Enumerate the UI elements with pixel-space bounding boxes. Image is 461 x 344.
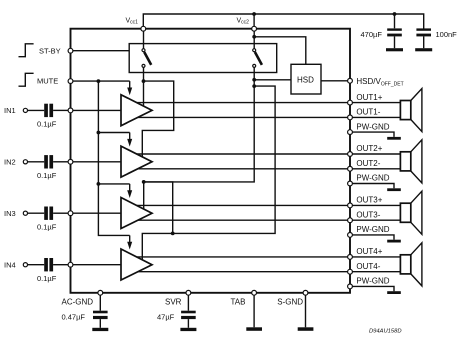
wire OUT4- from amplifier to pin and speaker bbox=[138, 271, 401, 273]
svg-text:PW-GND: PW-GND bbox=[356, 122, 389, 131]
MUTE input step waveform symbol bbox=[19, 73, 34, 86]
junction SW2 rail branch bbox=[252, 84, 256, 88]
svg-text:OUT1+: OUT1+ bbox=[356, 93, 382, 102]
svg-text:PW-GND: PW-GND bbox=[356, 277, 389, 286]
speaker load channel 1 bbox=[400, 89, 422, 132]
wire switch SW1 rail junction bbox=[142, 79, 146, 83]
svg-text:IN2: IN2 bbox=[4, 158, 16, 167]
svg-text:OUT3+: OUT3+ bbox=[356, 196, 382, 205]
wire OUT4+ from amplifier to pin and speaker bbox=[137, 256, 401, 258]
svg-text:OUT3-: OUT3- bbox=[356, 210, 380, 219]
node OUT1- pin bbox=[348, 108, 381, 120]
ground symbol PW-GND channel 4 bbox=[387, 291, 401, 294]
node IN3 input terminal bbox=[4, 209, 28, 218]
wire IN4 to coupling capacitor bbox=[28, 264, 45, 266]
mute control arrow into amp A2 bbox=[127, 133, 132, 147]
wire PW-GND to ground bbox=[352, 286, 394, 291]
wire IN1 to coupling capacitor bbox=[28, 109, 45, 111]
svg-text:MUTE: MUTE bbox=[37, 77, 58, 86]
capacitor 47uF SVR bbox=[157, 295, 196, 328]
ground symbol PW-GND channel 1 bbox=[387, 137, 401, 140]
node Vcc1 bbox=[126, 18, 146, 32]
wire OUT2+ from amplifier to pin and speaker bbox=[137, 153, 401, 155]
wire junction at Vcc2 stub bbox=[252, 12, 256, 16]
IC package boundary bbox=[71, 29, 351, 293]
wire mute distribution rail bbox=[98, 81, 129, 235]
svg-text:ST-BY: ST-BY bbox=[39, 47, 61, 56]
node IN4 pin on package bbox=[68, 262, 73, 267]
svg-text:0.1µF: 0.1µF bbox=[37, 222, 57, 231]
ground for 47uF bbox=[180, 328, 196, 331]
node PW-GND pin channel 2 bbox=[348, 174, 390, 186]
node AC-GND pin bbox=[62, 290, 103, 306]
wire supply into amp1 bbox=[143, 81, 145, 106]
wire IN2 pin to amplifier input bbox=[73, 161, 121, 163]
wire IN3 to coupling capacitor bbox=[28, 212, 45, 214]
junction amp4 supply line bbox=[171, 232, 175, 236]
node OUT3+ pin bbox=[348, 196, 383, 208]
junction amp3 supply bbox=[142, 180, 146, 184]
ST-BY input step waveform symbol bbox=[19, 44, 34, 57]
node PW-GND pin channel 3 bbox=[348, 225, 390, 237]
svg-text:D94AU158D: D94AU158D bbox=[369, 329, 402, 335]
wire switch SW2 rail down to amp3 bbox=[144, 86, 255, 209]
wire SW2 branch bypass down right side bbox=[142, 86, 275, 260]
wire OUT2- from amplifier to pin and speaker bbox=[138, 168, 401, 170]
svg-text:PW-GND: PW-GND bbox=[356, 225, 389, 234]
node OUT4- pin bbox=[348, 262, 381, 274]
svg-text:0.1µF: 0.1µF bbox=[37, 274, 57, 283]
svg-text:OUT2-: OUT2- bbox=[356, 159, 380, 168]
svg-text:0.1µF: 0.1µF bbox=[37, 171, 57, 180]
speaker load channel 4 bbox=[400, 243, 422, 286]
capacitor 0.47uF AC-GND bbox=[62, 295, 108, 328]
node SVR pin bbox=[165, 290, 191, 306]
wire PW-GND to ground bbox=[352, 184, 394, 189]
node PW-GND pin channel 4 bbox=[348, 277, 390, 289]
node PW-GND pin channel 1 bbox=[348, 122, 390, 134]
svg-text:OUT4-: OUT4- bbox=[356, 262, 380, 271]
wire OUT1- from amplifier to pin and speaker bbox=[138, 116, 401, 118]
figure reference code D94AU158D bbox=[369, 329, 402, 335]
svg-text:OUT2+: OUT2+ bbox=[356, 144, 382, 153]
node OUT2- pin bbox=[348, 159, 381, 171]
HSD block U2 bbox=[291, 64, 321, 94]
svg-text:PW-GND: PW-GND bbox=[356, 174, 389, 183]
capacitor 0.1uF input coupling C3 bbox=[37, 207, 57, 232]
wire coupling cap to IN1 pin bbox=[53, 109, 68, 111]
switch SW1 (Vcc1) bbox=[142, 31, 151, 81]
speaker load channel 3 bbox=[400, 191, 422, 234]
node OUT3- pin bbox=[348, 210, 381, 222]
mute control arrow into amp A4 bbox=[127, 235, 132, 249]
wire supply loop around amp3 feeding amp4 bbox=[144, 182, 173, 234]
ground for TAB bbox=[246, 295, 262, 331]
svg-text:S-GND: S-GND bbox=[277, 298, 303, 307]
wire OUT1+ from amplifier to pin and speaker bbox=[137, 102, 401, 104]
wire IN3 pin to amplifier input bbox=[73, 212, 121, 214]
svg-text:IN3: IN3 bbox=[4, 209, 16, 218]
svg-text:470µF: 470µF bbox=[361, 30, 383, 39]
ground symbol PW-GND channel 2 bbox=[387, 188, 401, 191]
svg-text:HSD: HSD bbox=[297, 76, 314, 85]
node IN1 pin on package bbox=[68, 108, 73, 113]
svg-text:OUT1-: OUT1- bbox=[356, 108, 380, 117]
junction mute rail to amp2 feed bbox=[97, 131, 130, 135]
wire junction at 470uF capacitor bbox=[393, 12, 397, 16]
op-amp power amplifier A1 bbox=[121, 95, 152, 126]
wire HSD output bbox=[321, 80, 348, 82]
svg-text:AC-GND: AC-GND bbox=[62, 298, 94, 307]
ground for S-GND bbox=[298, 295, 314, 331]
svg-text:0.1µF: 0.1µF bbox=[37, 120, 57, 129]
capacitor C5 470uF supply electrolytic bbox=[361, 14, 402, 48]
op-amp power amplifier A2 bbox=[121, 146, 152, 177]
svg-text:0.47µF: 0.47µF bbox=[62, 313, 86, 322]
svg-text:100nF: 100nF bbox=[436, 30, 458, 39]
ground symbol PW-GND channel 3 bbox=[387, 240, 401, 243]
svg-text:TAB: TAB bbox=[231, 298, 246, 307]
node MUTE pin bbox=[37, 77, 73, 86]
wire OUT3+ from amplifier to pin and speaker bbox=[137, 204, 401, 206]
svg-text:OUT4+: OUT4+ bbox=[356, 247, 382, 256]
stand-by/mute switch block bbox=[129, 44, 277, 73]
wire IN2 to coupling capacitor bbox=[28, 161, 45, 163]
node HSD/V_OFF_DET pin bbox=[348, 77, 404, 88]
ground for 470uF bbox=[386, 48, 403, 51]
junction mute rail to amp3 feed bbox=[97, 182, 130, 186]
svg-text:47µF: 47µF bbox=[157, 313, 175, 322]
op-amp power amplifier A4 bbox=[121, 249, 152, 280]
svg-text:IN1: IN1 bbox=[4, 106, 16, 115]
wire coupling cap to IN2 pin bbox=[53, 161, 68, 163]
svg-text:SVR: SVR bbox=[165, 298, 182, 307]
svg-text:IN4: IN4 bbox=[4, 260, 16, 269]
node Vcc2 bbox=[237, 18, 257, 32]
capacitor 0.1uF input coupling C4 bbox=[37, 258, 57, 283]
capacitor C6 100nF supply bypass bbox=[416, 28, 457, 48]
wire PW-GND to ground bbox=[352, 132, 394, 137]
mute control arrow into amp A3 bbox=[127, 184, 132, 198]
node IN2 pin on package bbox=[68, 159, 73, 164]
node OUT1+ pin bbox=[348, 93, 383, 105]
switch SW2 (Vcc2) bbox=[253, 31, 262, 86]
op-amp power amplifier A3 bbox=[121, 198, 152, 229]
node S-GND pin bbox=[277, 290, 308, 306]
wire switch rail to HSD input bbox=[252, 78, 291, 82]
wire Vcc2 stub bbox=[253, 14, 255, 29]
wire coupling cap to IN4 pin bbox=[53, 264, 68, 266]
wire IN1 pin to amplifier input bbox=[73, 109, 121, 111]
capacitor 0.1uF input coupling C2 bbox=[37, 155, 57, 180]
ground for 0.47uF bbox=[92, 328, 108, 331]
node OUT2+ pin bbox=[348, 144, 383, 156]
node IN1 input terminal bbox=[4, 106, 28, 115]
capacitor 0.1uF input coupling C1 bbox=[37, 104, 57, 129]
node IN2 input terminal bbox=[4, 158, 28, 167]
ground for 100nF bbox=[415, 48, 432, 51]
wire supply loop around amp1 feeding amp2 bbox=[142, 81, 173, 157]
svg-text:Vcc1: Vcc1 bbox=[126, 18, 139, 26]
wire Vcc supply rail to decoupling capacitors bbox=[143, 14, 423, 29]
wire OUT3- from amplifier to pin and speaker bbox=[138, 219, 401, 221]
wire PW-GND to ground bbox=[352, 235, 394, 240]
node ST-BY pin bbox=[39, 47, 73, 56]
wire coupling cap to IN3 pin bbox=[53, 212, 68, 214]
wire ST-BY to switch block bbox=[73, 50, 129, 52]
mute control arrow into amp A1 bbox=[127, 81, 132, 95]
node TAB pin bbox=[231, 290, 257, 306]
wire MUTE line to amp1 mute arrow bbox=[73, 80, 130, 82]
junction mute rail at MUTE line bbox=[97, 79, 101, 83]
speaker load channel 2 bbox=[400, 140, 422, 183]
wire IN4 pin to amplifier input bbox=[73, 264, 121, 266]
node IN3 pin on package bbox=[68, 211, 73, 216]
wire Vcc2 branch to HSD block bbox=[252, 35, 305, 64]
node IN4 input terminal bbox=[4, 260, 28, 269]
node OUT4+ pin bbox=[348, 247, 383, 259]
svg-text:Vcc2: Vcc2 bbox=[237, 18, 250, 26]
